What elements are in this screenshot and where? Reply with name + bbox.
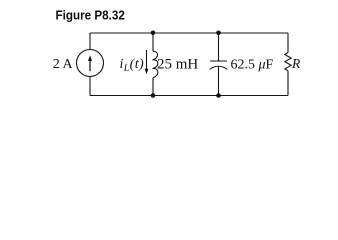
svg-text:62.5 μF: 62.5 μF bbox=[231, 57, 274, 72]
svg-text:iL(t): iL(t) bbox=[120, 57, 145, 74]
svg-text:25 mH: 25 mH bbox=[157, 56, 198, 72]
svg-text:R: R bbox=[291, 56, 301, 71]
svg-text:Figure P8.32: Figure P8.32 bbox=[56, 8, 125, 23]
svg-text:2 A: 2 A bbox=[53, 57, 74, 72]
